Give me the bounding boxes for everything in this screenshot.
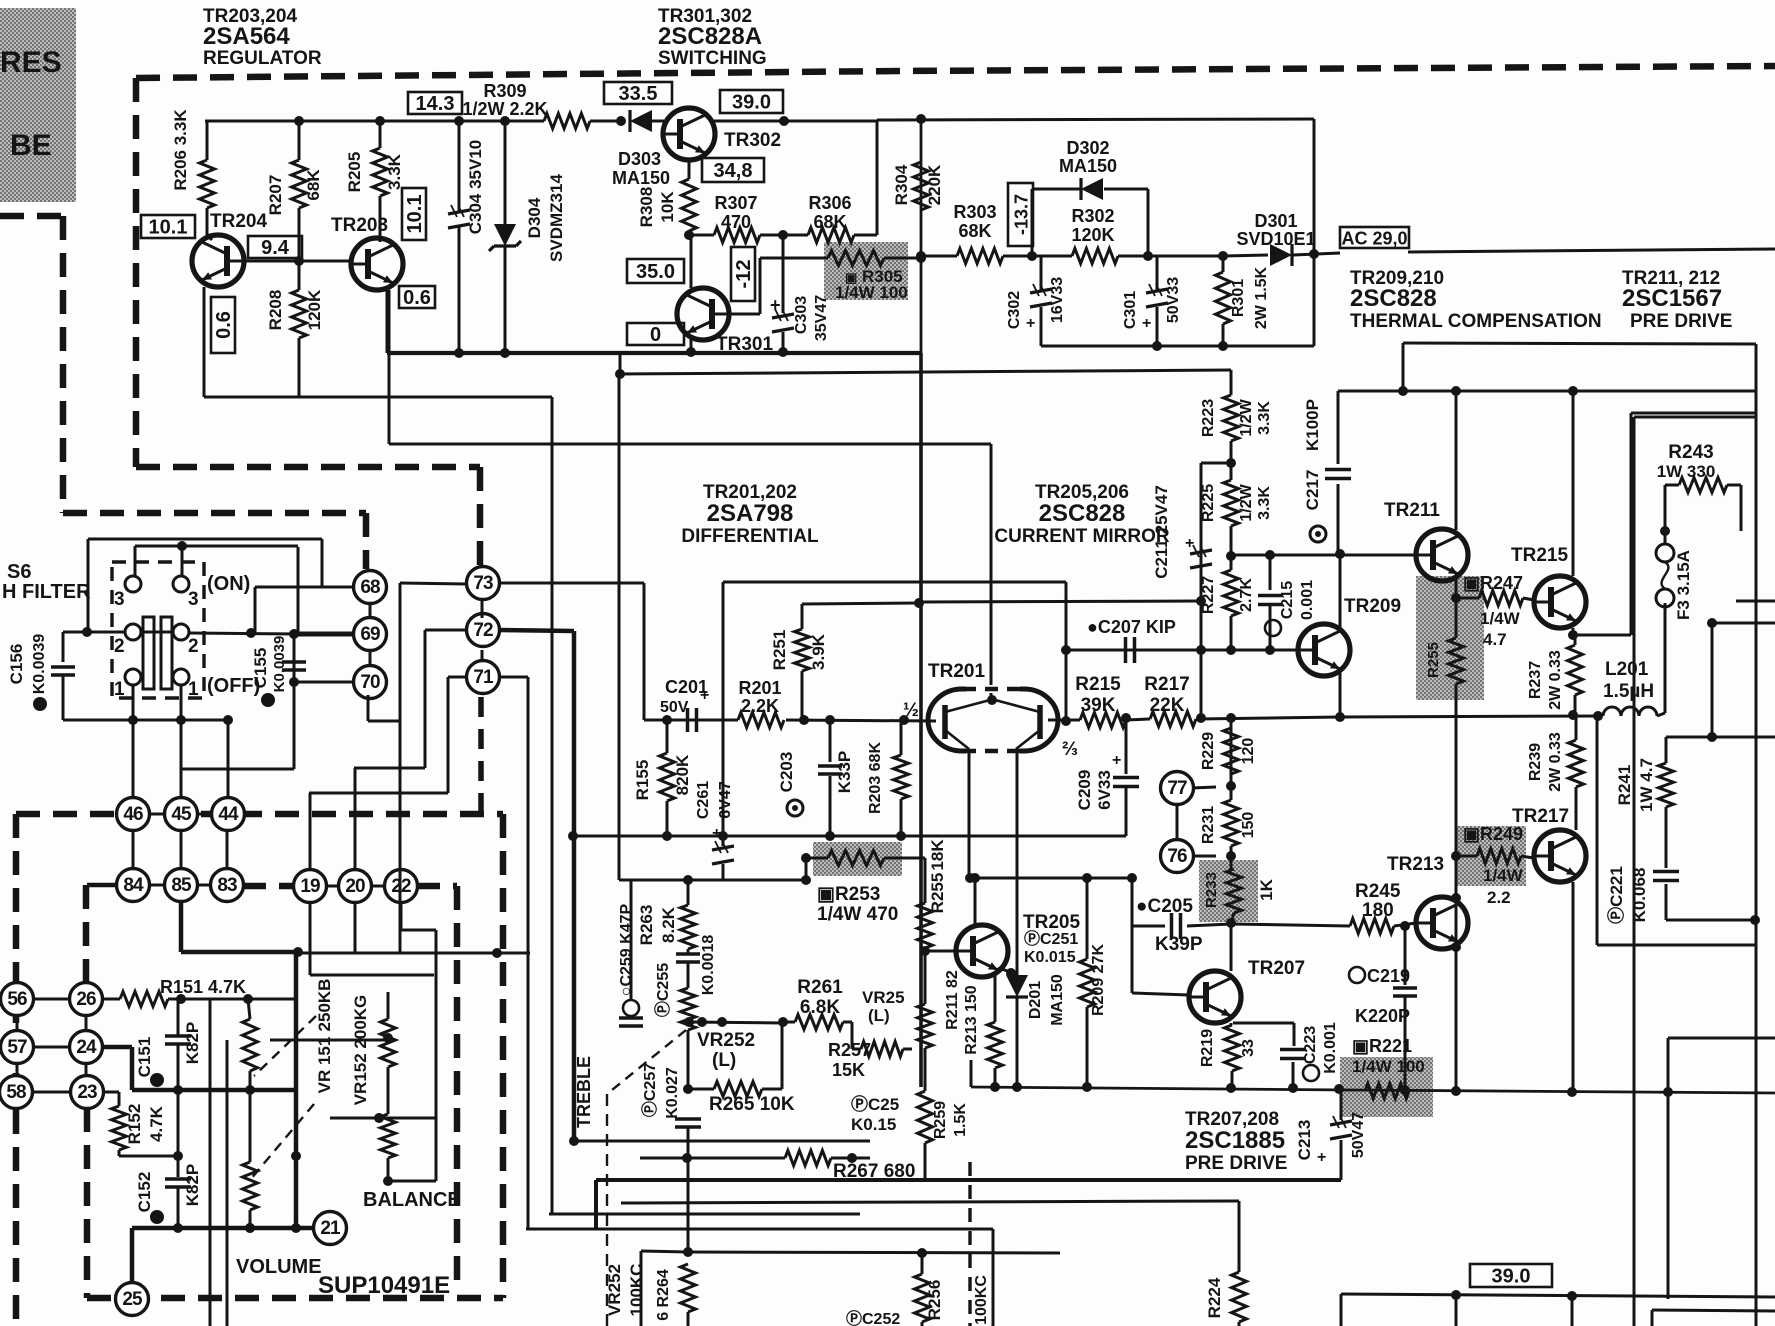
svg-text:R224: R224 (1205, 1277, 1224, 1318)
svg-text:68: 68 (360, 577, 380, 598)
svg-text:TR301: TR301 (716, 334, 773, 355)
svg-text:VR152 200KG: VR152 200KG (351, 995, 370, 1106)
svg-text:15K: 15K (832, 1060, 865, 1080)
svg-text:10.1: 10.1 (404, 195, 426, 234)
svg-text:820K: 820K (673, 754, 692, 795)
svg-text:K82P: K82P (183, 1164, 202, 1207)
svg-text:+: + (1185, 535, 1194, 552)
svg-text:1/2W: 1/2W (1238, 483, 1255, 521)
svg-text:23: 23 (77, 1082, 97, 1103)
svg-text:TR213: TR213 (1387, 854, 1444, 875)
svg-text:20: 20 (345, 876, 365, 897)
svg-text:TR205: TR205 (1023, 912, 1080, 933)
svg-text:1: 1 (188, 679, 199, 700)
svg-text:R211 82: R211 82 (944, 970, 961, 1030)
svg-text:S6: S6 (7, 561, 31, 583)
svg-text:AC 29,0: AC 29,0 (1341, 229, 1407, 249)
svg-text:K0.0018: K0.0018 (700, 935, 717, 996)
svg-text:33.5: 33.5 (619, 83, 658, 105)
svg-text:R239: R239 (1527, 743, 1544, 781)
svg-text:ⓅC25: ⓅC25 (851, 1094, 899, 1114)
svg-text:34,8: 34,8 (714, 160, 753, 182)
svg-text:R267 680: R267 680 (833, 1161, 915, 1182)
svg-text:2SC828A: 2SC828A (658, 23, 762, 50)
svg-text:0.6: 0.6 (403, 287, 431, 309)
svg-text:R261: R261 (797, 977, 843, 998)
svg-text:K0.0039: K0.0039 (31, 634, 48, 695)
svg-text:2W 0.33: 2W 0.33 (1547, 650, 1564, 710)
svg-text:K0.068: K0.068 (1630, 868, 1649, 923)
svg-text:77: 77 (1167, 778, 1187, 799)
svg-text:R155: R155 (633, 760, 652, 801)
svg-text:2SC828: 2SC828 (1350, 285, 1437, 312)
svg-text:R251: R251 (770, 630, 789, 671)
svg-text:180: 180 (1362, 900, 1394, 921)
svg-text:1/4W 100: 1/4W 100 (835, 283, 908, 302)
svg-text:2SC1567: 2SC1567 (1622, 285, 1722, 312)
svg-text:C211 25V47: C211 25V47 (1152, 485, 1171, 579)
svg-text:-12: -12 (733, 260, 755, 289)
svg-text:ⓅC255: ⓅC255 (653, 963, 672, 1017)
svg-text:TR203: TR203 (331, 215, 388, 236)
svg-text:14.3: 14.3 (416, 93, 455, 115)
svg-text:1.5K: 1.5K (952, 1103, 969, 1137)
svg-text:C203: C203 (777, 752, 796, 793)
svg-text:2SC828: 2SC828 (1039, 500, 1126, 527)
svg-text:R205: R205 (345, 152, 364, 193)
svg-text:3: 3 (114, 589, 125, 610)
svg-text:R241: R241 (1615, 765, 1634, 806)
svg-text:39K: 39K (1081, 695, 1116, 716)
svg-text:ⓅC221: ⓅC221 (1606, 866, 1626, 924)
svg-text:R223: R223 (1200, 399, 1217, 437)
svg-text:R306: R306 (808, 193, 851, 213)
svg-text:MA150: MA150 (612, 168, 670, 188)
svg-text:R213 150: R213 150 (963, 985, 980, 1054)
svg-text:0.001: 0.001 (1299, 580, 1316, 620)
svg-text:BALANCE: BALANCE (363, 1189, 461, 1211)
svg-text:8.2K: 8.2K (659, 906, 678, 943)
svg-text:K0.0039: K0.0039 (271, 636, 288, 693)
svg-text:C156: C156 (7, 644, 26, 685)
svg-text:VR25: VR25 (862, 988, 905, 1007)
svg-text:TR209: TR209 (1344, 596, 1401, 617)
svg-text:R245: R245 (1355, 881, 1401, 902)
svg-text:K0.027: K0.027 (664, 1067, 681, 1119)
svg-text:D302: D302 (1066, 138, 1109, 158)
svg-text:R219: R219 (1199, 1029, 1216, 1067)
svg-text:K0.001: K0.001 (1322, 1022, 1339, 1074)
svg-text:2.2K: 2.2K (741, 696, 779, 716)
svg-text:470: 470 (721, 212, 751, 232)
svg-text:R227: R227 (1200, 576, 1217, 614)
svg-text:(L): (L) (868, 1006, 890, 1025)
svg-text:9.4: 9.4 (261, 237, 290, 259)
svg-text:19: 19 (300, 876, 320, 897)
svg-text:120K: 120K (305, 289, 324, 330)
svg-text:1W 330: 1W 330 (1657, 462, 1716, 481)
svg-text:▣R249: ▣R249 (1463, 824, 1523, 844)
svg-text:C219: C219 (1367, 966, 1410, 986)
svg-text:73: 73 (473, 573, 493, 594)
svg-text:44: 44 (218, 804, 239, 825)
svg-text:3.3K: 3.3K (1256, 401, 1273, 435)
svg-text:4.7K: 4.7K (147, 1105, 166, 1142)
svg-text:C261: C261 (695, 781, 712, 819)
svg-text:0.6: 0.6 (213, 311, 235, 339)
svg-text:C302: C302 (1006, 291, 1023, 329)
svg-text:3.3K: 3.3K (1256, 486, 1273, 520)
svg-text:TR215: TR215 (1511, 545, 1568, 566)
svg-text:2SC1885: 2SC1885 (1185, 1127, 1285, 1154)
svg-text:TR201: TR201 (928, 661, 985, 682)
svg-text:+: + (700, 687, 709, 704)
svg-text:●C207 KIP: ●C207 KIP (1087, 617, 1176, 637)
svg-text:2W 0.33: 2W 0.33 (1547, 732, 1564, 792)
svg-text:R257: R257 (828, 1040, 871, 1060)
svg-text:K33P: K33P (835, 751, 854, 794)
svg-text:10.1: 10.1 (149, 217, 188, 239)
svg-text:TR302: TR302 (724, 130, 781, 151)
svg-text:0: 0 (650, 324, 661, 346)
svg-text:R152: R152 (125, 1104, 144, 1145)
svg-text:RES: RES (0, 46, 62, 79)
svg-text:69: 69 (360, 624, 380, 645)
svg-text:R255: R255 (928, 873, 947, 914)
svg-text:R231: R231 (1200, 806, 1217, 844)
svg-text:R309: R309 (483, 81, 526, 101)
svg-text:R208: R208 (266, 290, 285, 331)
svg-text:R206 3.3K: R206 3.3K (171, 109, 190, 191)
svg-text:68K: 68K (813, 212, 846, 232)
svg-text:39.0: 39.0 (732, 92, 771, 114)
svg-text:35.0: 35.0 (636, 261, 675, 283)
svg-text:VOLUME: VOLUME (236, 1256, 322, 1278)
svg-text:R151 4.7K: R151 4.7K (160, 977, 246, 997)
svg-text:SUP10491E: SUP10491E (318, 1272, 450, 1299)
svg-text:R307: R307 (714, 193, 757, 213)
svg-text:C301: C301 (1122, 291, 1139, 329)
svg-text:+: + (1142, 315, 1151, 332)
svg-text:1/2W: 1/2W (1238, 398, 1255, 436)
svg-text:R217: R217 (1144, 674, 1189, 695)
svg-text:R225: R225 (1200, 484, 1217, 522)
svg-text:85: 85 (171, 875, 192, 896)
svg-text:SVDMZ314: SVDMZ314 (547, 174, 566, 262)
svg-text:1/4W: 1/4W (1483, 866, 1524, 885)
svg-text:220K: 220K (925, 164, 944, 205)
svg-text:68K: 68K (958, 221, 991, 241)
svg-text:R201: R201 (738, 678, 781, 698)
svg-text:3: 3 (188, 589, 199, 610)
svg-text:R255: R255 (1425, 642, 1442, 678)
svg-text:50V47: 50V47 (1350, 1112, 1367, 1158)
svg-text:2.7K: 2.7K (1238, 578, 1255, 612)
svg-text:2W 1.5K: 2W 1.5K (1253, 266, 1270, 329)
svg-text:½: ½ (903, 700, 919, 721)
svg-text:R265 10K: R265 10K (709, 1094, 795, 1115)
svg-text:1W 4.7: 1W 4.7 (1637, 758, 1656, 812)
svg-text:TR207: TR207 (1248, 958, 1305, 979)
svg-text:+: + (770, 295, 781, 315)
svg-text:2: 2 (188, 636, 199, 657)
svg-text:1/4W: 1/4W (1480, 609, 1521, 628)
svg-text:MA150: MA150 (1059, 156, 1117, 176)
svg-text:1/2W 2.2K: 1/2W 2.2K (462, 99, 547, 119)
svg-text:-13.7: -13.7 (1012, 194, 1032, 235)
svg-text:76: 76 (1167, 846, 1187, 867)
svg-text:D301: D301 (1254, 211, 1297, 231)
svg-text:120: 120 (1240, 738, 1257, 765)
svg-text:R301: R301 (1230, 279, 1247, 317)
svg-text:39.0: 39.0 (1492, 1266, 1531, 1288)
svg-text:▣R253: ▣R253 (817, 884, 880, 905)
svg-text:C213: C213 (1295, 1120, 1314, 1161)
svg-text:1/4W 470: 1/4W 470 (817, 904, 898, 925)
svg-text:(ON): (ON) (207, 573, 250, 595)
svg-text:33: 33 (1240, 1039, 1257, 1057)
svg-text:C217: C217 (1303, 470, 1322, 511)
svg-text:C155: C155 (251, 648, 270, 689)
svg-text:6 R264: 6 R264 (655, 1269, 672, 1321)
svg-text:K39P: K39P (1155, 934, 1203, 955)
svg-text:1.5µH: 1.5µH (1603, 681, 1654, 702)
svg-text:58: 58 (6, 1082, 26, 1103)
svg-text:R233: R233 (1203, 872, 1220, 908)
svg-text:2SA564: 2SA564 (203, 23, 290, 50)
svg-text:C304 35V10: C304 35V10 (466, 140, 485, 235)
svg-text:R237: R237 (1527, 661, 1544, 699)
svg-text:▣R247: ▣R247 (1463, 573, 1523, 593)
svg-text:C151: C151 (135, 1037, 154, 1078)
svg-text:R229: R229 (1200, 732, 1217, 770)
svg-text:46: 46 (123, 804, 143, 825)
svg-text:6V47: 6V47 (717, 781, 734, 818)
svg-text:ⓅC257: ⓅC257 (640, 1063, 659, 1117)
svg-text:TREBLE: TREBLE (574, 1056, 594, 1128)
svg-text:C152: C152 (135, 1172, 154, 1213)
svg-text:VR252: VR252 (697, 1030, 755, 1051)
svg-text:PRE DRIVE: PRE DRIVE (1630, 311, 1732, 332)
svg-text:+: + (1317, 1149, 1326, 1166)
svg-text:56: 56 (7, 989, 27, 1010)
svg-text:CURRENT MIRROR: CURRENT MIRROR (994, 526, 1169, 547)
svg-text:F3 3.15A: F3 3.15A (1674, 550, 1693, 620)
svg-text:DIFFERENTIAL: DIFFERENTIAL (681, 526, 819, 547)
svg-text:2.2: 2.2 (1487, 888, 1511, 907)
svg-text:35V47: 35V47 (813, 295, 830, 341)
svg-text:TR211: TR211 (1384, 500, 1440, 521)
svg-text:C303: C303 (793, 296, 810, 334)
svg-text:21: 21 (320, 1218, 341, 1239)
svg-text:83: 83 (217, 875, 237, 896)
svg-text:BE: BE (10, 129, 52, 162)
svg-text:57: 57 (7, 1037, 27, 1058)
svg-text:71: 71 (473, 667, 494, 688)
svg-text:K100P: K100P (1303, 399, 1322, 451)
svg-text:SWITCHING: SWITCHING (658, 48, 767, 69)
svg-text:150: 150 (1240, 812, 1257, 839)
svg-text:+: + (1026, 315, 1035, 332)
svg-text:250KB: 250KB (315, 979, 334, 1032)
svg-text:R215: R215 (1075, 674, 1121, 695)
svg-text:MA150: MA150 (1049, 974, 1066, 1026)
svg-text:PRE DRIVE: PRE DRIVE (1185, 1153, 1287, 1174)
svg-text:R263: R263 (637, 905, 656, 946)
svg-text:C215: C215 (1279, 581, 1296, 619)
svg-text:R209 27K: R209 27K (1090, 944, 1107, 1016)
svg-text:K0.15: K0.15 (851, 1115, 896, 1134)
svg-text:1K: 1K (1257, 878, 1276, 900)
svg-text:100KC: 100KC (627, 1264, 646, 1317)
svg-text:D201: D201 (1027, 981, 1044, 1019)
svg-text:R308: R308 (637, 187, 656, 228)
svg-text:TR204: TR204 (210, 211, 267, 232)
svg-text:K0.015: K0.015 (1024, 949, 1076, 966)
svg-text:1: 1 (114, 679, 125, 700)
svg-text:120K: 120K (1071, 225, 1114, 245)
svg-text:6.8K: 6.8K (800, 997, 840, 1018)
svg-text:1/4W 100: 1/4W 100 (1352, 1057, 1425, 1076)
svg-text:L201: L201 (1605, 659, 1649, 680)
svg-text:100KC: 100KC (973, 1275, 990, 1325)
svg-text:D303: D303 (618, 149, 661, 169)
svg-text:R302: R302 (1071, 206, 1114, 226)
svg-text:50V: 50V (660, 699, 689, 716)
svg-text:R303: R303 (953, 202, 996, 222)
svg-text:16V33: 16V33 (1049, 277, 1066, 323)
svg-text:2: 2 (114, 636, 125, 657)
svg-text:K82P: K82P (183, 1022, 202, 1065)
svg-text:R259: R259 (932, 1101, 949, 1139)
svg-text:45: 45 (171, 804, 192, 825)
svg-text:R207: R207 (266, 175, 285, 216)
svg-text:R256: R256 (925, 1280, 944, 1321)
svg-text:SVD10E1: SVD10E1 (1236, 229, 1315, 249)
svg-text:REGULATOR: REGULATOR (203, 48, 322, 69)
svg-text:▣R221: ▣R221 (1352, 1036, 1412, 1056)
svg-text:K220P: K220P (1355, 1006, 1410, 1026)
svg-text:3.3K: 3.3K (385, 153, 404, 190)
svg-text:(L): (L) (712, 1050, 736, 1071)
svg-text:70: 70 (360, 672, 380, 693)
svg-text:C209: C209 (1075, 770, 1094, 811)
svg-text:25: 25 (122, 1289, 143, 1310)
svg-text:VR252: VR252 (605, 1264, 624, 1316)
svg-text:VR 151: VR 151 (315, 1037, 334, 1094)
svg-text:22K: 22K (1150, 695, 1185, 716)
svg-text:2SA798: 2SA798 (707, 500, 794, 527)
svg-text:72: 72 (473, 620, 493, 641)
svg-text:R203 68K: R203 68K (867, 742, 884, 814)
svg-text:68K: 68K (304, 169, 323, 201)
svg-text:26: 26 (76, 989, 96, 1010)
svg-text:50V33: 50V33 (1165, 277, 1182, 323)
svg-text:H FILTER: H FILTER (2, 581, 91, 603)
svg-text:10K: 10K (658, 191, 677, 223)
svg-text:ⓅC252: ⓅC252 (846, 1309, 900, 1326)
svg-text:⅔: ⅔ (1062, 739, 1078, 760)
svg-text:●C205: ●C205 (1136, 896, 1193, 917)
svg-text:+: + (1112, 752, 1121, 769)
svg-text:THERMAL COMPENSATION: THERMAL COMPENSATION (1350, 311, 1602, 332)
svg-text:6V33: 6V33 (1095, 770, 1114, 810)
svg-text:R304: R304 (892, 164, 911, 205)
svg-text:3.9K: 3.9K (809, 633, 828, 670)
svg-text:84: 84 (123, 875, 144, 896)
svg-text:18K: 18K (928, 839, 947, 871)
svg-text:C223: C223 (1302, 1026, 1319, 1064)
svg-text:D304: D304 (525, 197, 544, 238)
svg-text:24: 24 (76, 1037, 97, 1058)
svg-text:4.7: 4.7 (1483, 630, 1507, 649)
svg-text:R243: R243 (1668, 442, 1713, 463)
